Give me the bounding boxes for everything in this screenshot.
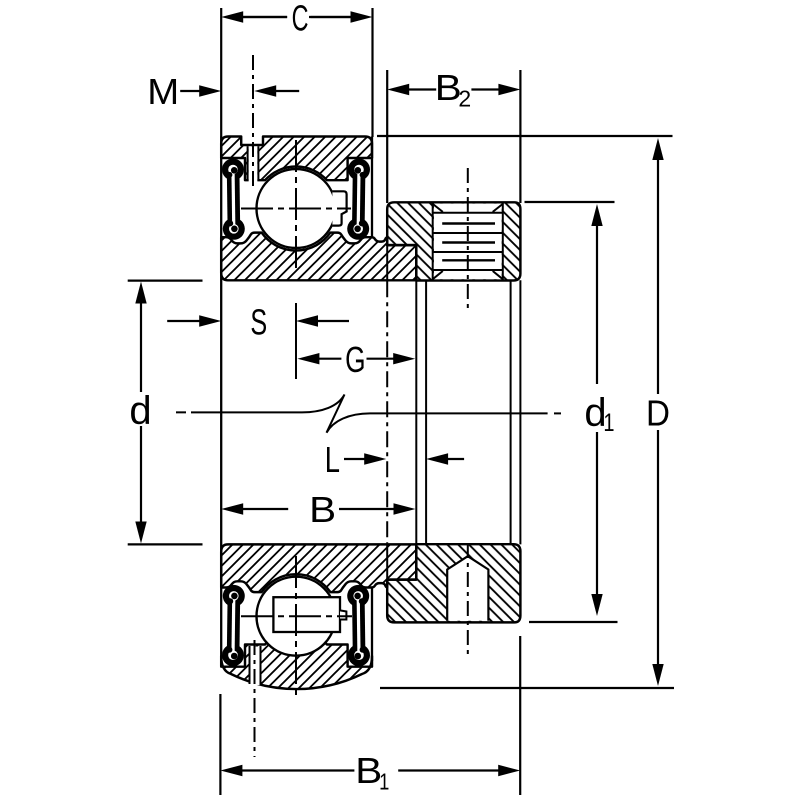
set screw centerline [467,543,469,656]
set screw hole centerline [467,168,469,310]
hidden collar face centerline (L reference) [386,281,388,543]
threaded set screw hole [434,204,502,280]
dimension B [221,503,243,514]
svg-text:G: G [345,339,365,380]
inner ring, bottom section [221,544,416,592]
ball, bottom section [257,577,336,656]
set screw [447,556,488,621]
ball centerlines, bottom [295,556,297,697]
cage and rivet, bottom section [273,597,340,632]
dimension B2 [386,70,388,203]
svg-text:B: B [355,751,382,792]
outer ring, top section [221,137,372,181]
seal, top left [222,159,244,181]
lube hole centerline [252,55,254,186]
ball centerlines, top [295,140,297,272]
inner ring - collar interface [386,245,388,280]
main axis centerline with break [176,411,186,413]
svg-text:d: d [129,389,151,433]
dimension B1 [219,694,221,795]
ball center plane extension line [295,303,297,379]
lubrication hole, top outer ring [249,146,258,182]
seal, top right [348,159,370,181]
svg-text:C: C [292,0,309,39]
svg-text:M: M [147,71,179,112]
dimension D [377,135,673,137]
dimension d [128,280,203,282]
dimension C [220,8,222,137]
cage tab, top section [332,191,346,225]
ball, top section [257,169,336,248]
dimension d1 [525,201,615,203]
dimension G [297,353,319,364]
inner ring, top section [221,233,416,281]
seal, bottom right [348,644,370,666]
lubrication hole, bottom outer ring [251,647,260,686]
outer ring, bottom section (crowned OD) [221,631,372,689]
seal, bottom left [222,644,244,666]
locking collar, bottom section [387,544,520,622]
locking collar, top section [387,202,520,280]
svg-text:1: 1 [603,409,614,437]
svg-text:S: S [250,302,267,343]
bottom lube hole centerline [254,640,256,757]
bore edge lines seen through bore [220,137,222,658]
svg-text:2: 2 [458,85,471,111]
dimension S [199,315,221,326]
svg-text:1: 1 [379,770,389,795]
svg-text:B: B [309,490,336,531]
svg-text:L: L [325,439,340,480]
inner ring - collar interface, bottom [386,544,388,579]
svg-text:D: D [646,393,670,434]
